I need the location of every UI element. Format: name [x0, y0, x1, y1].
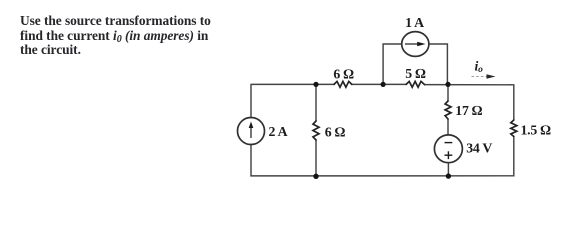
svg-text:6 Ω: 6 Ω	[333, 67, 354, 82]
svg-text:5 Ω: 5 Ω	[405, 66, 426, 81]
svg-text:1.5 Ω: 1.5 Ω	[521, 123, 552, 138]
svg-text:1 A: 1 A	[405, 15, 424, 30]
svg-text:2 A: 2 A	[269, 124, 288, 139]
svg-text:17 Ω: 17 Ω	[455, 103, 482, 118]
svg-text:6 Ω: 6 Ω	[325, 125, 346, 140]
svg-text:io: io	[475, 58, 484, 75]
svg-text:34 V: 34 V	[466, 141, 492, 156]
